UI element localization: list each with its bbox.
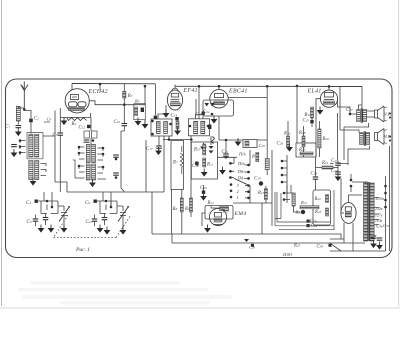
- wire bottom bus 2: [172, 234, 365, 243]
- switch contacts input left: [20, 141, 26, 156]
- svg-text:C6: C6: [47, 117, 52, 122]
- tube EL41 U4: [307, 88, 338, 108]
- ground variable cap B: [120, 227, 127, 235]
- svg-text:Пд2: Пд2: [237, 161, 246, 166]
- svg-text:250в: 250в: [375, 207, 383, 211]
- tube 6Ц5С rectifier: [341, 203, 356, 224]
- wire antenna right branch: [24, 111, 31, 134]
- resistor R20b vertical: [292, 193, 295, 206]
- wire T1 primary feed: [155, 84, 166, 119]
- tuning gang section A: [26, 200, 70, 233]
- node junction blob: [301, 210, 305, 214]
- wire ECH42 plate: [90, 101, 146, 105]
- ground R16: [286, 144, 293, 152]
- ground R4: [135, 118, 142, 126]
- wire EL41 column: [288, 86, 319, 157]
- ground R11: [201, 169, 208, 177]
- oscillator coil bank: [73, 118, 119, 188]
- wire switch common: [233, 203, 272, 234]
- resistor R24 horizontal: [300, 206, 319, 209]
- switch contacts osc right: [98, 148, 107, 179]
- wire EBC41 cathode line: [219, 116, 267, 140]
- svg-text:Пд1: Пд1: [238, 152, 247, 157]
- ground EBC41: [211, 116, 218, 124]
- wire ECH42 screen to bus: [72, 84, 100, 90]
- resistor R2: [67, 118, 87, 121]
- coil L9 osc: [92, 164, 96, 180]
- ground C17: [155, 147, 162, 155]
- resistor R20: [318, 129, 321, 148]
- capacitor C5 trimmer: [43, 218, 49, 220]
- variable capacitor C6: [58, 206, 67, 228]
- ground gang A left: [38, 225, 45, 233]
- ground C23: [235, 138, 242, 146]
- svg-text:ИЗО: ИЗО: [282, 252, 293, 257]
- output transformer T4: [360, 131, 370, 146]
- wire bottom right bus: [330, 146, 390, 251]
- svg-text:C23: C23: [259, 143, 266, 148]
- svg-text:110в: 110в: [375, 219, 382, 223]
- ground EM4: [202, 213, 205, 226]
- wire EBC41 plate out: [228, 97, 267, 99]
- wire gang B frame: [97, 201, 117, 214]
- capacitor C19 detector: [210, 136, 212, 145]
- node antenna junction: [23, 108, 26, 111]
- svg-text:ЗООв: ЗООв: [375, 197, 384, 201]
- svg-text:EBC41: EBC41: [228, 88, 248, 95]
- svg-text:127в: 127в: [375, 214, 383, 218]
- tone network box: [313, 190, 331, 225]
- loudspeaker HP1: [375, 106, 392, 122]
- svg-text:P: P: [251, 155, 255, 160]
- ground variable cap A: [61, 225, 68, 233]
- svg-text:R4: R4: [134, 99, 140, 104]
- IF transformer T1: [151, 119, 172, 136]
- page scan edges (decorative): [1, 0, 3, 306]
- tube ECH42 U1: [65, 88, 108, 113]
- resistor R7 box: [171, 141, 184, 190]
- filter capacitors: [371, 236, 377, 238]
- wire grid line: [163, 139, 191, 141]
- ground ECH42 grid: [61, 117, 68, 125]
- tube EF41 U2: [167, 87, 198, 110]
- wire choke column: [266, 86, 272, 210]
- svg-text:ECH42: ECH42: [88, 88, 108, 95]
- coil HF choke: [265, 159, 269, 170]
- resistor R6 cathode: [176, 121, 179, 129]
- antenna: [21, 82, 28, 110]
- tube EM4 magic eye: [205, 206, 247, 226]
- output transformer T3: [357, 108, 367, 123]
- ground filter cap 1: [370, 240, 377, 248]
- ground bottom bus: [244, 239, 249, 242]
- wire EL41 grid/plate: [316, 86, 329, 107]
- page scan ghost print (decorative): [18, 281, 232, 305]
- node plate junction: [123, 103, 126, 106]
- wire T3 to speaker: [367, 111, 375, 117]
- tuning gang section B: [85, 200, 129, 235]
- wire input to grid: [43, 111, 67, 193]
- svg-text:EM4: EM4: [234, 211, 247, 217]
- wire EF41 plate top: [166, 85, 175, 114]
- wire C15 riser: [144, 86, 146, 124]
- ground C15: [142, 121, 149, 129]
- resistor R10 box network: [191, 142, 217, 179]
- switch contacts input right: [41, 164, 47, 176]
- transformer taps: [374, 198, 379, 225]
- wire T1 to grid line: [159, 136, 169, 192]
- ground EL41: [317, 107, 324, 115]
- wire input coil box: [27, 133, 43, 159]
- wire gang A frame: [38, 201, 58, 214]
- ground cathode R6: [174, 127, 181, 135]
- coil L5 band D: [35, 161, 39, 180]
- loudspeaker HP2: [375, 129, 392, 145]
- tap selector: [385, 176, 387, 228]
- resistor R3: [123, 84, 133, 124]
- coil L4 band C: [29, 161, 33, 180]
- coil L3 band B: [35, 135, 39, 158]
- wire speaker return: [338, 113, 370, 165]
- tube EBC41 U3: [210, 88, 248, 109]
- power switch contacts: [350, 179, 353, 182]
- wire rectifier: [330, 164, 362, 252]
- wire detector out: [218, 156, 238, 163]
- resistor R17 box: [296, 143, 316, 157]
- power transformer T5: [352, 182, 374, 241]
- coil L2 band A: [29, 135, 33, 158]
- wire AVC bus: [44, 192, 164, 234]
- svg-text:EF41: EF41: [183, 87, 198, 94]
- ground gang B mid: [104, 227, 111, 235]
- ground gang A mid: [48, 225, 55, 233]
- coil L1 antenna: [16, 107, 20, 122]
- switch wave-band contacts: [229, 150, 272, 234]
- switch contacts osc left: [73, 147, 85, 178]
- trimmer rack osc: [84, 131, 90, 138]
- svg-text:Пд3: Пд3: [237, 169, 246, 174]
- ground filter cap 2: [376, 242, 383, 250]
- ground oscillator: [89, 179, 96, 187]
- wire ECH42 grid box: [60, 108, 90, 118]
- wire bottom bus 1: [152, 233, 332, 235]
- capacitor C11 trimmer: [102, 218, 108, 220]
- wire B+ top bus: [72, 84, 362, 87]
- wire T2 primary: [196, 86, 203, 119]
- svg-text:C31: C31: [383, 223, 390, 228]
- capacitor C15: [141, 108, 144, 113]
- ground trimmer: [11, 149, 18, 157]
- wire tone nested boxes: [275, 190, 334, 230]
- svg-text:EL41: EL41: [307, 88, 322, 95]
- svg-text:1: 1: [237, 195, 239, 200]
- wire antenna to L1: [18, 107, 24, 125]
- coil L8 osc: [86, 164, 90, 180]
- ground detector: [200, 143, 207, 151]
- ground EF41 cathode: [163, 110, 170, 118]
- resistor R4: [134, 99, 146, 120]
- ground gang B left: [97, 225, 104, 233]
- ground under C1: [15, 128, 22, 136]
- coil L7 osc: [92, 145, 96, 163]
- capacitor C8 trimmer: [11, 145, 17, 147]
- wire gang mechanical link (dashed): [54, 215, 132, 238]
- padder capacitors: [113, 155, 119, 157]
- coil L6 osc: [86, 145, 90, 163]
- svg-text:R21: R21: [300, 200, 307, 205]
- wire EBC41 top: [218, 86, 220, 89]
- IF transformer T2: [189, 119, 215, 143]
- wire output plate feed: [338, 87, 363, 133]
- switch contacts output: [281, 155, 287, 203]
- ground input coils: [30, 178, 37, 186]
- svg-text:Рис. 1: Рис. 1: [75, 247, 90, 253]
- variable capacitor C12: [117, 206, 126, 230]
- ground volume: [219, 167, 226, 175]
- capacitor C23 electrolytic: [243, 140, 257, 148]
- wire tone bus: [316, 161, 338, 177]
- shield box EBC41: [203, 100, 234, 116]
- ground tone caps: [335, 173, 342, 181]
